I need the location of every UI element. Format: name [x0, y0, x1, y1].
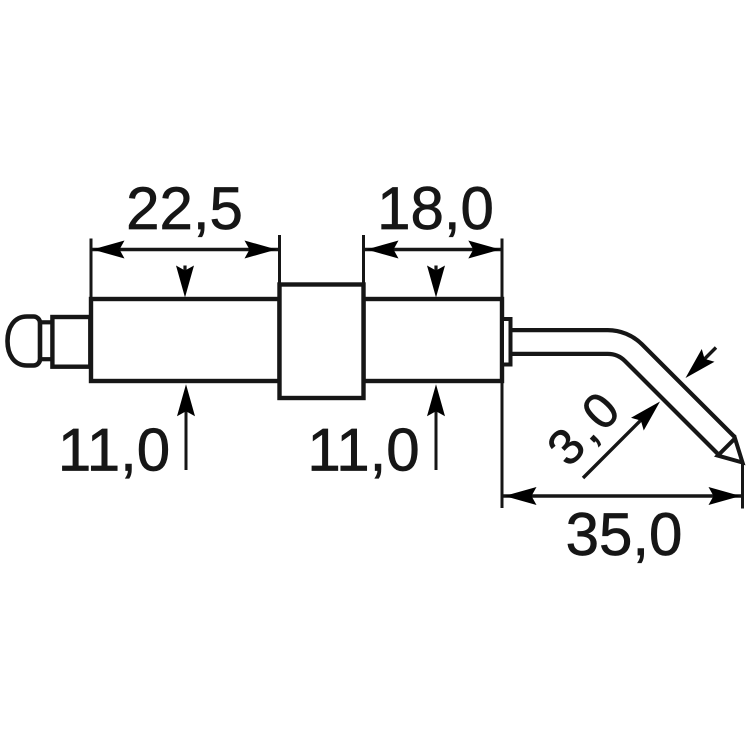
cylinder 1 (body 22,5)	[91, 299, 280, 381]
svg-text:22,5: 22,5	[126, 175, 243, 242]
cylinder 2 (body 18,0)	[364, 299, 503, 381]
extension line right of 35,0 below tip	[741, 463, 744, 509]
dimension line 22,5	[91, 248, 280, 251]
center block	[280, 285, 364, 399]
down arrow to cylinder1 top	[183, 266, 186, 282]
upper arrow pointing down-left at rod	[698, 348, 716, 366]
extension line left of 18,0 / block right	[362, 235, 365, 285]
connector ball (left tip)	[8, 317, 41, 366]
up arrow to cylinder2 bottom (11,0 right)	[435, 400, 438, 470]
up arrow to cylinder1 bottom (11,0 left)	[185, 400, 188, 470]
collar flange	[502, 319, 511, 365]
down arrow to cylinder2 top	[434, 266, 437, 282]
svg-text:3,0: 3,0	[536, 379, 633, 477]
svg-text:11,0: 11,0	[307, 417, 419, 484]
neck lines	[38, 320, 54, 324]
dimension line 18,0	[364, 248, 501, 251]
svg-text:35,0: 35,0	[566, 501, 683, 568]
rod pointed tip	[718, 438, 743, 462]
3,0 leader arrow pointing up-right at rod	[583, 411, 650, 478]
svg-text:18,0: 18,0	[377, 175, 494, 242]
electrode rod (bent wire)	[510, 342, 727, 446]
extension line right of 22,5 / block left	[278, 235, 281, 285]
svg-text:11,0: 11,0	[58, 417, 170, 484]
extension line right of 18,0 / 35,0 left, cylinder edge extended	[501, 239, 504, 509]
dimension line 35,0	[503, 494, 742, 497]
cap rectangle	[52, 317, 90, 367]
extension line left of 22,5	[90, 239, 93, 300]
